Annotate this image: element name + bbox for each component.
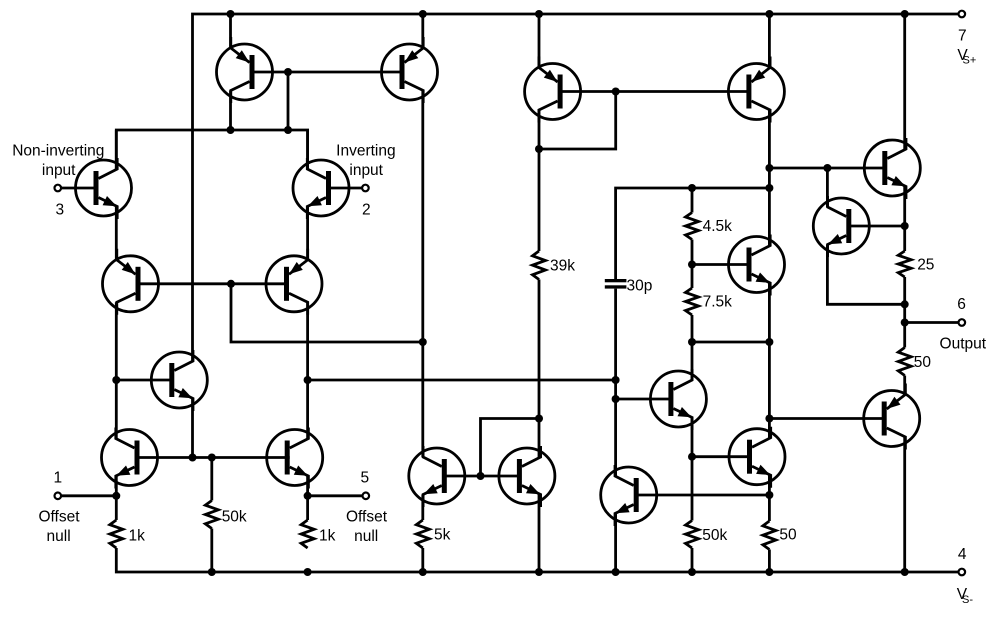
junction Q17 emitter / Q22 base xyxy=(765,491,773,499)
wire Q12 emitter to V+ rail xyxy=(538,14,541,68)
junction offset null 1 node xyxy=(112,492,120,500)
wire node B bus Q4/Q6 collectors to Q16 base column xyxy=(308,379,616,382)
wire Q16 emitter node to Q17 base xyxy=(692,455,750,458)
svg-text:S-: S- xyxy=(962,594,973,606)
wire Q6 emitter node to terminal 5 xyxy=(308,494,363,497)
svg-text:25: 25 xyxy=(917,257,934,274)
wire 4.5k R7 top to Q13 collector node xyxy=(691,188,694,213)
terminal pin 3 non-inverting input xyxy=(12,142,104,218)
svg-text:input: input xyxy=(349,162,383,179)
junction Q12 collector tie xyxy=(535,145,543,153)
svg-text:4.5k: 4.5k xyxy=(703,218,733,235)
junction Q16 collector tap xyxy=(688,338,696,346)
wire 7.5k R8 bottom to Q16 collector xyxy=(691,315,694,380)
resistor R8 7.5k xyxy=(686,288,733,315)
resistor R2 1k xyxy=(301,520,336,548)
wire Q14 base wire from Q13 collector node xyxy=(769,167,884,170)
transistor Q13 (PNP) xyxy=(728,57,784,123)
transistor Q2 (NPN) xyxy=(293,158,349,219)
junction Q8/Q9 base tie xyxy=(284,68,292,76)
terminal pin 6 Output xyxy=(940,296,987,352)
wire 50k R3 top tap on base rail xyxy=(210,458,213,501)
terminal pin 5 offset null xyxy=(346,470,388,545)
capacitor C1 30p xyxy=(605,277,653,294)
junction 39k bottom / Q11 collector tie xyxy=(535,415,543,423)
wire Q18 base tap to 7.5k R8 top xyxy=(691,265,694,289)
junction 4.5k top tap xyxy=(688,184,696,192)
wire Q16 emitter down through Q17 base node to 50k R11 xyxy=(691,418,694,521)
transistor Q16 (NPN) xyxy=(650,369,706,430)
svg-text:1k: 1k xyxy=(319,528,336,545)
svg-text:5k: 5k xyxy=(434,527,451,544)
wire Q10 emitter to 5k R4 xyxy=(421,495,424,521)
transistor Q8 (PNP) xyxy=(217,37,273,103)
transistor Q14 (NPN) xyxy=(864,138,920,199)
resistor R4 5k xyxy=(416,520,450,548)
junction C1 top / Q13 collector node xyxy=(765,184,773,192)
wire Q8 base to Q9 base xyxy=(252,71,403,74)
wire Q16 collector cross-link to Q18 emitter column xyxy=(692,341,769,344)
svg-text:6: 6 xyxy=(957,296,966,313)
resistor R5 39k xyxy=(533,251,576,280)
wire Q1 collector up to bus xyxy=(115,130,118,169)
resistor R9 25 xyxy=(898,251,934,277)
wire Q3 collector down to Q5 collector / Q7 base node xyxy=(115,302,118,438)
junction Q13 collector / Q14 base xyxy=(765,164,773,172)
transistor Q1 (NPN) xyxy=(76,158,132,219)
wire 50k R11 bottom to V- rail xyxy=(691,548,694,572)
svg-text:1: 1 xyxy=(53,470,62,487)
transistor Q5 (NPN) xyxy=(102,428,158,489)
junction Q10/Q11 base tie xyxy=(477,472,485,480)
wire 25 R9 bottom through output node to 50 R10 top xyxy=(903,277,906,348)
wire Q8 collector down to input-collector bus xyxy=(229,91,232,131)
svg-text:3: 3 xyxy=(55,202,64,219)
wire Q16 base tap xyxy=(616,398,671,401)
wire Q7 base to Q3/Q5 node xyxy=(116,379,172,382)
svg-text:Offset: Offset xyxy=(38,508,80,525)
transistor Q20 (PNP) xyxy=(864,384,920,450)
wire Q22 base tap to Q17 emitter node xyxy=(636,494,770,497)
wire Q14 emitter to 25 R9 and Q15 base node xyxy=(903,187,906,252)
junction V- rail / 50k R11 xyxy=(688,568,696,576)
transistor Q6 (NPN) xyxy=(267,428,323,489)
wire 50 R12 bottom to V- rail xyxy=(768,550,771,573)
transistor Q10 (NPN) xyxy=(409,446,465,507)
wire Q8/Q9 base junction down to input-collector bus xyxy=(287,72,290,130)
junction V- rail / Q20 collector xyxy=(901,568,909,576)
transistor Q18 (NPN) xyxy=(729,235,785,296)
junction V- rail / Q22 emitter xyxy=(612,568,620,576)
svg-text:Non-inverting: Non-inverting xyxy=(12,142,104,159)
svg-text:Offset: Offset xyxy=(346,508,388,525)
junction Q16 emitter / Q17 base / 50k top xyxy=(688,453,696,461)
wire V- rail (pin 4) xyxy=(116,548,958,572)
wire Q15 collector up to Q14 base node xyxy=(826,168,829,207)
terminal pin 2 inverting input xyxy=(336,142,395,218)
wire Q17 emitter down to 50 R12 xyxy=(768,475,771,521)
wire output tap to terminal 6 xyxy=(905,321,959,324)
wire Q3 base to Q4 base xyxy=(136,282,289,285)
wire Q10 base to Q11 base xyxy=(444,475,519,478)
junction output node xyxy=(901,319,909,327)
wire Q2 base to terminal 2 xyxy=(326,187,362,190)
wire Q8 collector to V+ rail xyxy=(229,14,232,48)
wire Q5 emitter down through offset null 1 node to R1 1k xyxy=(115,476,118,520)
junction bus / Q8 base drop xyxy=(284,126,292,134)
wire Q20 collector to V- rail xyxy=(903,437,906,572)
wire Q4 collector down to Q6 collector (node B) xyxy=(306,302,309,438)
wire Q17 collector node to Q20 base xyxy=(769,417,884,420)
junction V- rail / R2 xyxy=(304,568,312,576)
wire Q3/Q4 base junction down and over to node A xyxy=(231,284,423,342)
wire Q15 base to Q14 emitter node xyxy=(848,225,904,228)
resistor R12 50 xyxy=(763,521,797,550)
wire Q16 base column down to Q22 collector xyxy=(614,380,617,476)
svg-text:5: 5 xyxy=(360,470,369,487)
wire Q1 emitter to Q3 emitter xyxy=(115,207,118,260)
junction Q14 base / Q15 collector xyxy=(823,164,831,172)
svg-text:50k: 50k xyxy=(222,509,247,526)
transistor Q7 (NPN) xyxy=(151,350,207,411)
svg-text:null: null xyxy=(47,528,71,545)
wire terminal 3 to Q1 base xyxy=(61,187,97,190)
junction V+ rail / Q13 emitter xyxy=(765,10,773,18)
svg-text:S+: S+ xyxy=(963,55,977,67)
junction node B: Q4/Q6 collectors xyxy=(304,376,312,384)
wire Q12 collector tie to base (diode connection) xyxy=(539,92,616,150)
svg-text:39k: 39k xyxy=(550,258,575,275)
junction Q3 collector / Q7 base xyxy=(112,376,120,384)
wire Q14 collector to V+ rail xyxy=(903,14,906,149)
wire Q9 collector down to node A (Q3/Q4 bases, Q10 collector) xyxy=(421,91,424,343)
wire Q6 emitter down through offset null 5 node to R2 1k xyxy=(306,476,309,520)
resistor R10 50 xyxy=(898,348,931,376)
wire Q13 collector down to Q18 collector xyxy=(768,110,771,246)
resistor R3 50k xyxy=(205,501,247,529)
svg-text:4: 4 xyxy=(958,546,967,563)
junction V- rail / 50k R3 xyxy=(208,568,216,576)
junction Q17 collector / Q20 base xyxy=(765,415,773,423)
wire 5k R4 bottom to V- rail xyxy=(421,548,424,572)
junction bus / Q8 collector xyxy=(227,126,235,134)
transistor Q9 (PNP) xyxy=(382,37,438,103)
svg-text:30p: 30p xyxy=(627,277,653,294)
junction V+ rail / Q8 collector xyxy=(227,10,235,18)
wire input collector bus Q1-Q2 (y=130) xyxy=(116,130,307,169)
junction C1 bottom on node B bus xyxy=(612,376,620,384)
svg-text:1k: 1k xyxy=(129,528,146,545)
wire 4.5k R7 bottom to Q18 base node xyxy=(691,240,694,265)
svg-text:7: 7 xyxy=(958,27,967,44)
resistor R1 1k xyxy=(110,520,145,548)
junction V+ rail / Q9 emitter xyxy=(419,10,427,18)
wire Q18 base to divider xyxy=(692,263,750,266)
junction Q14 emitter / Q15 base / 25 top xyxy=(901,222,909,230)
svg-text:50: 50 xyxy=(914,354,932,371)
wire Q5 base to Q6 base xyxy=(137,456,290,459)
wire terminal 1 to Q5 emitter node xyxy=(61,494,116,497)
wire 50k R3 bottom to V- rail xyxy=(210,529,213,573)
wire Q2 collector up to bus xyxy=(306,130,309,169)
wire Q11 collector tie: 39k bottom over to base junction xyxy=(481,419,540,477)
junction Q12/Q13 base tie xyxy=(612,88,620,96)
transistor Q3 (PNP) xyxy=(103,249,159,315)
wire node A down to Q10 collector xyxy=(421,342,424,457)
junction V- rail / R4 xyxy=(419,568,427,576)
wire Q13 emitter to V+ rail xyxy=(768,14,771,68)
transistor Q15 (NPN) xyxy=(813,196,869,257)
transistor Q12 (PNP) xyxy=(525,57,581,123)
wire Q2 emitter to Q4 emitter xyxy=(306,207,309,260)
wire 50 R10 bottom to Q20 emitter xyxy=(903,376,906,395)
wire C1 bottom plate down to node B bus xyxy=(614,289,617,380)
wire Q11 emitter to V- rail xyxy=(538,495,541,573)
svg-text:7.5k: 7.5k xyxy=(703,293,733,310)
wire Q12 collector to 39k top xyxy=(538,110,541,251)
wire Q12/Q13 base node down via cap branch corner xyxy=(616,188,770,279)
wire Q15 emitter down and over to output column xyxy=(827,245,904,305)
junction Q16 base tap xyxy=(612,395,620,403)
svg-text:null: null xyxy=(354,528,378,545)
resistor R11 50k xyxy=(686,521,728,549)
transistor Q22 (NPN) xyxy=(601,465,657,526)
transistor Q4 (PNP) xyxy=(266,249,322,315)
junction V+ rail / Q14 collector xyxy=(901,10,909,18)
wire Q12 base to Q13 base xyxy=(560,90,749,93)
junction V+ rail / Q12 emitter xyxy=(535,10,543,18)
junction Q18 emitter tap xyxy=(765,338,773,346)
junction V- rail / 50 R12 xyxy=(765,568,773,576)
junction 50k top on base rail xyxy=(208,454,216,462)
wire Q7 emitter down to Q5/Q6 base rail xyxy=(191,399,194,458)
junction 4.5k-7.5k divider / Q18 base xyxy=(688,261,696,269)
terminal pin 1 offset null xyxy=(38,470,80,545)
transistor Q17 (NPN) xyxy=(729,427,785,488)
junction Q3/Q4 base tie xyxy=(227,280,235,288)
junction Q15 emitter / 25 bottom xyxy=(901,300,909,308)
terminal pin 4 V s- xyxy=(957,546,974,606)
wire Q9 emitter to V+ rail xyxy=(421,14,424,48)
svg-text:50k: 50k xyxy=(702,527,727,544)
wire Q18 emitter down to Q17 collector xyxy=(768,283,771,438)
svg-text:Inverting: Inverting xyxy=(336,142,395,159)
svg-text:2: 2 xyxy=(362,201,371,218)
junction node A: Q9/Q10 collectors, Q3/Q4 bases xyxy=(419,338,427,346)
transistor Q11 (NPN) xyxy=(499,446,555,507)
svg-text:input: input xyxy=(42,162,76,179)
junction Q7 emitter on base rail xyxy=(189,454,197,462)
resistor R7 4.5k xyxy=(686,213,733,240)
wire 39k bottom to Q11 collector xyxy=(538,280,541,458)
svg-text:Output: Output xyxy=(940,335,987,352)
wire Q22 emitter to V- rail xyxy=(614,514,617,573)
terminal pin 7 V s+ xyxy=(957,11,976,67)
svg-text:50: 50 xyxy=(779,527,797,544)
junction V- rail / Q11 emitter xyxy=(535,568,543,576)
wire V+ rail (pin 7) with left drop to Q7 collector xyxy=(193,14,959,361)
junction offset null 5 node xyxy=(304,492,312,500)
